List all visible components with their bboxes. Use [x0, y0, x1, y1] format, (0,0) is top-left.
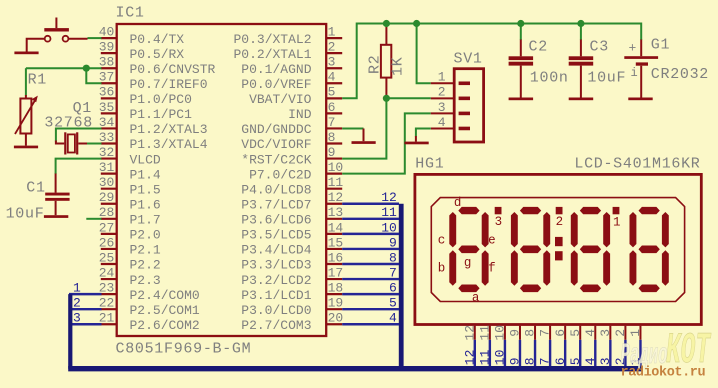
svg-text:P0.6/CNVSTR: P0.6/CNVSTR — [130, 62, 216, 77]
HG1 pin 8 stub — [523, 326, 538, 340]
svg-text:radiokot.ru: radiokot.ru — [621, 366, 706, 381]
bus wire LCD7 — [538, 340, 553, 366]
svg-text:20: 20 — [328, 311, 344, 326]
IC1 left pin 32 VLCD — [99, 145, 161, 167]
bus wire LCD11 — [477, 340, 492, 366]
svg-text:P1.0/PC0: P1.0/PC0 — [130, 92, 192, 107]
svg-text:P0.2/XTAL1: P0.2/XTAL1 — [233, 47, 311, 62]
ground (G1) — [628, 98, 652, 101]
svg-text:P1.2/XTAL3: P1.2/XTAL3 — [130, 122, 208, 137]
svg-text:2: 2 — [613, 329, 628, 337]
resistor R1 (variable) — [15, 95, 38, 146]
label SV1 — [454, 50, 483, 67]
svg-text:1K: 1K — [390, 57, 407, 76]
capacitor C1 — [45, 174, 69, 216]
svg-text:4: 4 — [438, 115, 446, 130]
svg-text:15: 15 — [328, 235, 344, 250]
svg-text:VDC/VIORF: VDC/VIORF — [241, 137, 311, 152]
svg-text:CR2032: CR2032 — [651, 66, 709, 83]
svg-text:8: 8 — [523, 357, 538, 365]
ground (C1) — [44, 215, 68, 218]
svg-text:10: 10 — [493, 325, 508, 341]
svg-text:P0.0/VREF: P0.0/VREF — [241, 77, 311, 92]
svg-text:11: 11 — [477, 349, 492, 365]
wire pin 34 to crystal — [56, 129, 102, 142]
HG1 pin 10 stub — [493, 325, 508, 341]
IC1 right pin 5 VBAT/VIO — [249, 85, 342, 107]
svg-text:8: 8 — [523, 329, 538, 337]
LCD display HG1 outer box — [415, 174, 701, 324]
junction R2 bottom — [383, 95, 390, 102]
bus wire LCD11 to IC pin 13 — [342, 205, 399, 220]
ground (C3) — [569, 98, 594, 101]
svg-text:P1.4: P1.4 — [130, 167, 161, 182]
bus wire COM0 to pin 23 — [69, 281, 102, 296]
svg-text:5: 5 — [568, 329, 583, 337]
HG1 pin 7 stub — [538, 326, 553, 340]
svg-text:13: 13 — [328, 205, 344, 220]
svg-text:2: 2 — [328, 40, 336, 55]
svg-text:P0.4/TX: P0.4/TX — [130, 32, 185, 47]
value label 100n — [530, 70, 569, 87]
capacitor C3 — [569, 24, 594, 98]
ground (SV1 pin 4) — [405, 142, 429, 145]
svg-text:2: 2 — [556, 215, 564, 229]
wire stub pin 28 — [86, 218, 101, 220]
svg-text:10: 10 — [493, 350, 508, 366]
svg-text:+: + — [629, 40, 637, 55]
svg-text:P2.2: P2.2 — [130, 258, 161, 273]
svg-text:9: 9 — [508, 329, 523, 337]
value label 32768 — [44, 114, 93, 131]
svg-text:27: 27 — [99, 220, 115, 235]
bus horizontal bottom — [68, 366, 642, 371]
wire pin 7 GND — [342, 129, 363, 142]
IC1 left pin 31 P1.4 — [99, 160, 161, 182]
svg-text:P2.6/COM2: P2.6/COM2 — [130, 318, 200, 333]
capacitor C2 — [509, 24, 533, 98]
svg-text:1: 1 — [628, 329, 643, 337]
svg-text:a: a — [472, 291, 480, 305]
watermark radiokot.ru — [621, 366, 706, 381]
svg-text:P0.3/XTAL2: P0.3/XTAL2 — [233, 32, 311, 47]
watermark KOT — [666, 326, 711, 376]
svg-text:IND: IND — [288, 107, 312, 122]
svg-text:31: 31 — [99, 160, 115, 175]
svg-text:30: 30 — [99, 175, 115, 190]
svg-text:1: 1 — [613, 216, 621, 230]
svg-text:4: 4 — [389, 311, 397, 326]
svg-text:11: 11 — [381, 205, 397, 220]
svg-text:29: 29 — [99, 190, 115, 205]
SV1 pin 2 — [431, 85, 470, 100]
svg-text:10: 10 — [328, 160, 344, 175]
svg-text:12: 12 — [381, 190, 397, 205]
bus wire LCD10 — [493, 340, 508, 366]
HG1 pin 11 stub — [477, 325, 492, 341]
IC1 left pin 35 P1.1/PC1 — [99, 100, 192, 122]
svg-text:P1.5: P1.5 — [130, 182, 161, 197]
bus wire LCD6 — [553, 340, 568, 366]
svg-text:P3.6/LCD6: P3.6/LCD6 — [241, 213, 311, 228]
HG1 pin 12 stub — [462, 325, 477, 341]
7-segment digit 1 — [449, 207, 488, 292]
pushbutton S1 — [44, 18, 69, 42]
connector SV1 body — [454, 69, 483, 142]
IC1 left pin 23 P2.4/COM0 — [99, 281, 200, 303]
junction C3 on rail — [577, 20, 584, 27]
svg-text:7: 7 — [328, 115, 336, 130]
IC1 left pin 34 P1.2/XTAL3 — [99, 115, 208, 137]
svg-text:25: 25 — [99, 250, 115, 265]
svg-text:6: 6 — [553, 357, 568, 365]
value label CR2032 — [651, 66, 709, 83]
IC1 right pin 4 P0.0/VREF — [241, 70, 342, 92]
svg-text:5: 5 — [328, 85, 336, 100]
IC1 right pin 12 P3.7/LCD7 — [241, 190, 343, 212]
bus wire LCD7 to IC pin 17 — [342, 265, 399, 280]
label C1 — [26, 179, 45, 196]
label C2 — [529, 39, 548, 56]
HG1 pin 4 stub — [583, 326, 598, 340]
svg-text:P3.4/LCD4: P3.4/LCD4 — [241, 243, 311, 258]
bus wire LCD8 — [523, 340, 538, 366]
segment letter labels — [438, 196, 496, 305]
LCD glass inner outline — [431, 198, 684, 302]
IC1 left pin 27 P2.0 — [99, 220, 161, 242]
IC1 right pin 11 P4.0/LCD8 — [241, 175, 343, 197]
svg-text:R2: R2 — [367, 55, 384, 74]
svg-text:c: c — [438, 233, 446, 247]
IC1 right pin 7 GND/GNDDC — [241, 115, 342, 137]
bus wire LCD4 — [583, 340, 598, 366]
svg-text:35: 35 — [99, 100, 115, 115]
wire R2 bottom to pin 9 RST — [342, 98, 386, 158]
svg-text:32768: 32768 — [44, 114, 93, 131]
indicator square 3 — [495, 207, 503, 229]
svg-text:C1: C1 — [26, 179, 45, 196]
svg-text:26: 26 — [99, 235, 115, 250]
IC1 left pin 21 P2.6/COM2 — [99, 311, 200, 333]
svg-text:1: 1 — [73, 281, 81, 296]
bus vertical left — [68, 294, 72, 369]
wire pin 10 C2D to SV1 pin 3 — [342, 113, 431, 173]
label R1 — [28, 72, 47, 89]
value label LCD-S401M16KR — [574, 156, 700, 173]
wire rail to SV1 pin 1 — [417, 24, 431, 84]
HG1 pin 9 stub — [508, 326, 523, 340]
label HG1 — [415, 156, 444, 173]
svg-text:3: 3 — [438, 100, 446, 115]
SV1 pin 1 — [431, 70, 470, 85]
svg-text:4: 4 — [583, 329, 598, 337]
junction node pin38 — [83, 65, 90, 72]
junction R2 top on rail — [383, 20, 390, 27]
svg-text:P2.7/COM3: P2.7/COM3 — [241, 318, 311, 333]
IC1 right pin 20 P2.7/COM3 — [241, 311, 343, 333]
SV1 pin 4 — [431, 115, 470, 130]
svg-text:C2: C2 — [529, 39, 548, 56]
colon dots — [555, 237, 563, 261]
svg-text:f: f — [488, 261, 496, 275]
IC1 left pin 29 P1.6 — [99, 190, 161, 212]
IC1 right pin 8 VDC/VIORF — [241, 130, 342, 152]
svg-text:P0.1/AGND: P0.1/AGND — [241, 62, 311, 77]
wire pin 32 VLCD to C1 — [56, 159, 102, 174]
svg-text:24: 24 — [99, 265, 115, 280]
svg-text:11: 11 — [477, 325, 492, 341]
battery G1 — [624, 40, 658, 98]
svg-text:7: 7 — [389, 265, 397, 280]
IC1 left pin 22 P2.5/COM1 — [99, 296, 200, 318]
svg-text:P2.1: P2.1 — [130, 243, 161, 258]
svg-text:LCD-S401M16KR: LCD-S401M16KR — [574, 156, 700, 173]
ground (R1) — [14, 146, 38, 149]
svg-text:5: 5 — [389, 296, 397, 311]
value label 10uF — [587, 70, 626, 87]
svg-text:4: 4 — [583, 357, 598, 365]
svg-text:12: 12 — [462, 350, 477, 366]
bus wire LCD9 — [508, 340, 523, 366]
svg-text:3: 3 — [328, 55, 336, 70]
svg-text:1: 1 — [438, 70, 446, 85]
bus wire LCD5 to IC pin 19 — [342, 296, 399, 311]
wire net to pin 38 — [26, 67, 102, 69]
svg-text:P3.2/LCD2: P3.2/LCD2 — [241, 273, 311, 288]
ground (button) — [14, 52, 38, 55]
svg-text:6: 6 — [553, 329, 568, 337]
value label 1K (rotated) — [390, 57, 407, 76]
label Q1 — [73, 100, 92, 117]
svg-text:1: 1 — [328, 25, 336, 40]
svg-text:12: 12 — [328, 190, 344, 205]
IC1 right pin 17 P3.2/LCD2 — [241, 265, 343, 287]
battery + mark — [629, 40, 637, 55]
HG1 pin 5 stub — [568, 326, 583, 340]
IC1 right pin 3 P0.1/AGND — [241, 55, 342, 77]
svg-text:g: g — [464, 256, 472, 270]
IC1 right pin 1 P0.3/XTAL2 — [233, 25, 342, 47]
wire down to R1 — [25, 68, 27, 95]
svg-text:10: 10 — [381, 220, 397, 235]
IC1 left pin 38 P0.6/CNVSTR — [99, 55, 216, 77]
label R2 (rotated) — [367, 55, 384, 74]
bus wire LCD12 to IC pin 12 — [342, 190, 399, 205]
svg-text:12: 12 — [462, 325, 477, 341]
label IC1 — [116, 5, 145, 22]
svg-text:P0.7/IREF0: P0.7/IREF0 — [130, 77, 208, 92]
svg-text:16: 16 — [328, 250, 344, 265]
wire button to pin 40 — [68, 37, 101, 40]
IC1 right pin 14 P3.5/LCD5 — [241, 220, 343, 242]
svg-text:P7.0/C2D: P7.0/C2D — [249, 167, 312, 182]
svg-text:8: 8 — [389, 250, 397, 265]
svg-text:18: 18 — [328, 281, 344, 296]
svg-text:i: i — [631, 66, 638, 80]
IC1 left pin 39 P0.5/RX — [99, 40, 185, 62]
watermark Radio (ghost) — [621, 339, 668, 373]
svg-text:C8051F969-B-GM: C8051F969-B-GM — [116, 341, 252, 358]
svg-text:e: e — [488, 233, 496, 247]
SV1 pin 3 — [431, 100, 470, 115]
svg-text:P1.1/PC1: P1.1/PC1 — [130, 107, 193, 122]
bus wire LCD12 — [462, 340, 477, 366]
IC1 left pin 37 P0.7/IREF0 — [99, 70, 208, 92]
wire crystal to pin 33 — [87, 143, 102, 145]
bus wire COM2 to pin 21 — [69, 311, 102, 326]
IC1 right pin 13 P3.6/LCD6 — [241, 205, 343, 227]
bus wire LCD2 — [613, 340, 628, 366]
svg-text:GND/GNDDC: GND/GNDDC — [241, 122, 311, 137]
svg-text:7: 7 — [538, 329, 553, 337]
crystal Q1 — [56, 132, 87, 154]
wire button to ground — [27, 39, 45, 52]
microcontroller IC1 body — [117, 24, 327, 336]
svg-text:VBAT/VIO: VBAT/VIO — [249, 92, 312, 107]
bus wire LCD1 — [628, 340, 643, 366]
svg-text:10uF: 10uF — [587, 70, 626, 87]
IC1 left pin 30 P1.5 — [99, 175, 161, 197]
svg-text:P1.6: P1.6 — [130, 197, 161, 212]
svg-text:3: 3 — [73, 311, 81, 326]
junction C2 on rail — [517, 20, 524, 27]
bus wire LCD4 to IC pin 20 — [342, 311, 399, 326]
junction SV1 pin1 drop on rail — [413, 20, 420, 27]
bus wire LCD3 — [598, 340, 613, 366]
svg-text:IC1: IC1 — [116, 5, 145, 22]
IC1 left pin 40 P0.4/TX — [99, 25, 185, 47]
svg-text:P2.4/COM0: P2.4/COM0 — [130, 288, 200, 303]
HG1 pin 2 stub — [613, 326, 628, 340]
svg-text:P2.5/COM1: P2.5/COM1 — [130, 303, 200, 318]
svg-text:11: 11 — [328, 175, 344, 190]
svg-text:4: 4 — [328, 70, 336, 85]
svg-text:P0.5/RX: P0.5/RX — [130, 47, 185, 62]
indicator square 2 — [556, 207, 564, 229]
IC1 right pin 16 P3.3/LCD3 — [241, 250, 343, 272]
svg-text:SV1: SV1 — [454, 50, 483, 67]
svg-text:P2.0: P2.0 — [130, 228, 161, 243]
svg-text:P2.3: P2.3 — [130, 273, 161, 288]
svg-text:P3.3/LCD3: P3.3/LCD3 — [241, 258, 311, 273]
svg-text:100n: 100n — [530, 70, 569, 87]
IC1 right pin 19 P3.0/LCD0 — [241, 296, 343, 318]
HG1 pin 1 stub — [628, 326, 643, 340]
svg-text:19: 19 — [328, 296, 344, 311]
label G1 — [651, 36, 670, 53]
svg-text:d: d — [454, 196, 462, 210]
svg-text:5: 5 — [568, 357, 583, 365]
bus wire LCD10 to IC pin 14 — [342, 220, 399, 235]
svg-text:*RST/C2CK: *RST/C2CK — [241, 152, 311, 167]
bus vertical right — [399, 204, 404, 369]
bus wire LCD8 to IC pin 16 — [342, 250, 399, 265]
svg-text:14: 14 — [328, 220, 344, 235]
svg-text:R1: R1 — [28, 72, 47, 89]
resistor R2 — [381, 25, 391, 98]
indicator square 1 — [613, 207, 621, 230]
bus wire COM1 to pin 22 — [69, 296, 102, 311]
IC1 right pin 2 P0.2/XTAL1 — [233, 40, 342, 62]
svg-text:VLCD: VLCD — [130, 152, 161, 167]
wire SV1 pin 4 to ground — [416, 129, 431, 142]
power rail wire VBAT — [342, 24, 641, 99]
svg-text:P3.7/LCD7: P3.7/LCD7 — [241, 197, 311, 212]
IC1 right pin 10 P7.0/C2D — [249, 160, 343, 182]
bus wire LCD9 to IC pin 15 — [342, 235, 399, 250]
svg-text:36: 36 — [99, 85, 115, 100]
svg-text:9: 9 — [328, 145, 336, 160]
svg-text:2: 2 — [438, 85, 446, 100]
ground (pin 7) — [352, 141, 376, 144]
IC1 left pin 26 P2.1 — [99, 235, 161, 257]
svg-text:3: 3 — [598, 357, 613, 365]
svg-text:P3.0/LCD0: P3.0/LCD0 — [241, 303, 311, 318]
svg-text:6: 6 — [389, 281, 397, 296]
svg-text:2: 2 — [73, 296, 81, 311]
svg-text:10uF: 10uF — [6, 206, 45, 223]
svg-text:P1.3/XTAL4: P1.3/XTAL4 — [130, 137, 208, 152]
wire R2 bottom to SV1 pin 2 — [386, 97, 430, 99]
value label 10uF — [6, 206, 45, 223]
svg-text:C3: C3 — [590, 39, 609, 56]
bus wire LCD6 to IC pin 18 — [342, 281, 399, 296]
battery - mark — [631, 66, 638, 80]
svg-text:39: 39 — [99, 40, 115, 55]
svg-text:3: 3 — [598, 329, 613, 337]
label C3 — [590, 39, 609, 56]
value label C8051F969-B-GM — [116, 341, 252, 358]
HG1 pin 6 stub — [553, 326, 568, 340]
IC1 left pin 25 P2.2 — [99, 250, 161, 272]
svg-text:HG1: HG1 — [415, 156, 444, 173]
7-segment digit 2 — [511, 207, 550, 292]
bus wire LCD5 — [568, 340, 583, 366]
7-segment digit 4 — [630, 207, 669, 292]
IC1 right pin 18 P3.1/LCD1 — [241, 281, 343, 303]
IC1 left pin 28 P1.7 — [99, 205, 161, 227]
svg-text:P4.0/LCD8: P4.0/LCD8 — [241, 182, 311, 197]
svg-text:9: 9 — [389, 235, 397, 250]
IC1 left pin 33 P1.3/XTAL4 — [99, 130, 208, 152]
svg-text:3: 3 — [495, 215, 503, 229]
7-segment digit 3 — [571, 207, 610, 292]
svg-text:9: 9 — [508, 357, 523, 365]
IC1 right pin 15 P3.4/LCD4 — [241, 235, 343, 257]
IC1 right pin 6 IND — [288, 100, 342, 122]
svg-text:P3.5/LCD5: P3.5/LCD5 — [241, 228, 311, 243]
svg-text:b: b — [438, 261, 446, 275]
IC1 right pin 9 *RST/C2CK — [241, 145, 342, 167]
svg-text:8: 8 — [328, 130, 336, 145]
svg-text:P1.7: P1.7 — [130, 213, 161, 228]
svg-text:P3.1/LCD1: P3.1/LCD1 — [241, 288, 311, 303]
IC1 left pin 36 P1.0/PC0 — [99, 85, 192, 107]
svg-text:7: 7 — [538, 357, 553, 365]
ground (C2) — [509, 98, 533, 101]
svg-text:6: 6 — [328, 100, 336, 115]
wire branch to pin 37 — [86, 68, 101, 83]
svg-text:17: 17 — [328, 265, 344, 280]
svg-text:G1: G1 — [651, 36, 670, 53]
IC1 left pin 24 P2.3 — [99, 265, 161, 287]
HG1 pin 3 stub — [598, 326, 613, 340]
